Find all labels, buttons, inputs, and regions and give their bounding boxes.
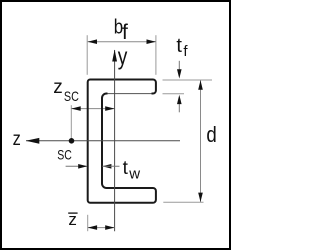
dimension z_sc line (71, 108, 114, 110)
label z-bar overbar (68, 212, 77, 214)
dimension z-bar extension line (87, 215, 89, 231)
dimension z_sc arrow left (71, 106, 80, 111)
dimension z_sc arrow right (105, 106, 114, 111)
dimension t_f upper leader line (178, 61, 180, 71)
dimension t_f extension line bottom (163, 93, 185, 95)
z axis arrowhead (26, 138, 40, 144)
dimension d arrow bottom (down) (198, 193, 203, 202)
dimension d line (200, 80, 202, 202)
dimension t_w left leader line (66, 165, 87, 167)
dimension b_f arrow right (147, 39, 156, 44)
svg-text:d: d (206, 122, 216, 147)
svg-text:SC: SC (57, 146, 72, 162)
svg-text:f: f (122, 21, 128, 44)
svg-text:t: t (176, 35, 182, 57)
dimension b_f extension line left (86, 35, 88, 75)
svg-text:t: t (123, 158, 129, 179)
dimension t_f lower leader line (178, 103, 180, 112)
svg-text:w: w (128, 165, 140, 182)
svg-text:z: z (53, 77, 63, 98)
dimension t_w right leader line (103, 165, 120, 167)
y axis arrowhead (112, 50, 117, 62)
dimension t_f extension line top (163, 79, 213, 81)
shear center dot SC (69, 138, 75, 144)
dimension z-bar arrow left (88, 225, 97, 230)
dimension t_w right arrow (left) (102, 164, 111, 169)
dimension b_f line (88, 41, 156, 43)
z axis line (26, 140, 180, 142)
dimension t_f upper arrow (down) (177, 69, 182, 78)
dimension d arrow top (up) (198, 80, 203, 89)
dimension d extension line bottom (163, 201, 203, 203)
top flange inner edge (thin) (108, 92, 152, 95)
channel section outline (88, 80, 156, 203)
dimension b_f arrow left (88, 39, 97, 44)
y axis line (114, 50, 116, 231)
dimension z-bar arrow right (105, 225, 114, 230)
svg-text:z: z (68, 210, 77, 229)
dimension b_f extension line right (155, 35, 157, 75)
svg-text:SC: SC (64, 88, 79, 104)
svg-text:z: z (13, 129, 21, 150)
dimension t_w left arrow (right) (78, 164, 87, 169)
svg-text:y: y (118, 44, 128, 71)
dimension z-bar line (88, 227, 115, 229)
dimension z_sc extension line (SC vertical) (70, 105, 72, 138)
outer border frame (1, 1, 230, 249)
dimension t_f lower arrow (up) (177, 95, 182, 104)
